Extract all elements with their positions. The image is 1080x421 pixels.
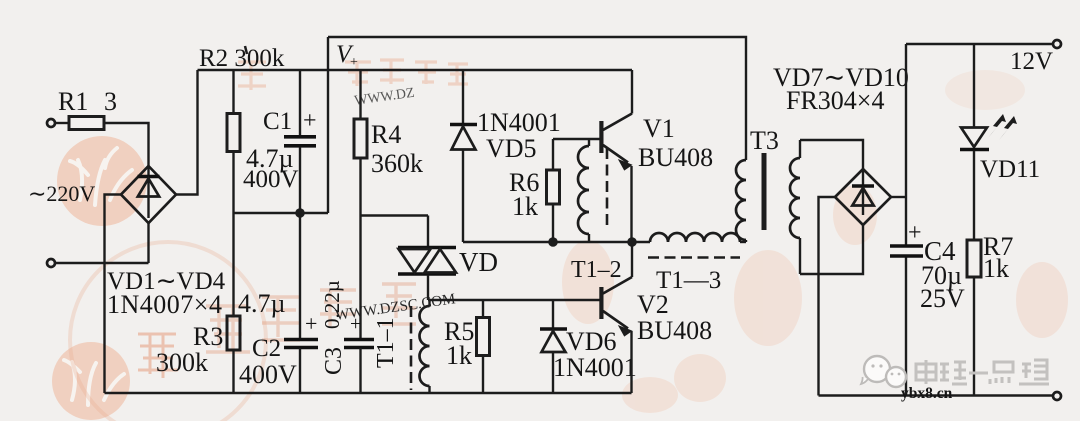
core dashes T1-1 <box>410 306 413 390</box>
wire terminal2 horizontal <box>55 262 149 264</box>
resistor R6 <box>547 139 560 242</box>
bottom rail right circuit <box>819 394 1054 396</box>
svg-text:VD6: VD6 <box>566 327 617 356</box>
wire bridge2 right vertex <box>891 196 906 198</box>
svg-text:300k: 300k <box>156 348 208 377</box>
svg-text:1N4001: 1N4001 <box>553 353 637 382</box>
wire bridge2 left vertex down <box>819 197 836 396</box>
winding T1-3 <box>632 233 746 242</box>
capacitor C4 <box>890 246 923 256</box>
wire secondary bottom to bridge2 <box>800 225 863 274</box>
svg-text:C3: C3 <box>321 347 347 375</box>
svg-text:1k: 1k <box>512 192 538 221</box>
mid node line <box>234 212 329 214</box>
logo text gray chars <box>916 360 1049 384</box>
wire bridge bottom vertex to neutral <box>147 223 149 263</box>
terminal input top <box>47 119 55 127</box>
top line to T3 primary <box>328 37 746 160</box>
diode VD6 <box>540 300 567 393</box>
svg-text:1N4007×4: 1N4007×4 <box>107 290 222 319</box>
crossing wire mid node to top line <box>327 37 329 213</box>
watermark chars center-top <box>238 60 468 90</box>
svg-text:360k: 360k <box>371 149 423 178</box>
transistor V1 <box>599 70 632 242</box>
svg-text:R4: R4 <box>371 120 401 149</box>
transistor V2 <box>599 242 632 393</box>
capacitor C2 <box>284 213 318 393</box>
terminal 12V- <box>1053 392 1061 400</box>
watermark ring lower-left <box>70 242 266 421</box>
resistor R5 <box>477 300 490 393</box>
core dashes T1-3 <box>648 256 740 259</box>
resistor R2 <box>227 70 240 213</box>
LED arrows <box>988 114 1017 140</box>
watermark char lower-left <box>138 334 178 378</box>
winding T1-2 <box>578 139 589 242</box>
terminal input bottom <box>47 259 55 267</box>
svg-text:0.22µ: 0.22µ <box>320 280 344 329</box>
wire terminal1 to R1 <box>55 122 69 124</box>
DC+ vertical right <box>905 44 907 245</box>
wire R1 to bridge top <box>104 123 149 166</box>
junction dot C1 bottom <box>295 208 305 218</box>
svg-text:BU408: BU408 <box>637 316 712 345</box>
resistor R3 <box>227 213 240 393</box>
junction dot R6 bottom <box>548 237 558 247</box>
svg-text:V1: V1 <box>643 114 675 143</box>
junction dot V1 emitter <box>627 237 637 247</box>
bridge rectifier VD7-VD10 <box>835 169 891 225</box>
watermark stamp disc upper-left <box>57 136 147 226</box>
svg-text:3: 3 <box>104 87 117 116</box>
diac VD <box>398 216 456 301</box>
svg-text:+: + <box>303 108 317 134</box>
V1 base wire <box>553 138 600 140</box>
svg-text:25V: 25V <box>920 284 965 313</box>
LED VD11 <box>960 44 989 240</box>
svg-text:+: + <box>350 313 361 335</box>
transformer T3 secondary <box>790 140 800 274</box>
svg-text:R1: R1 <box>58 87 88 116</box>
svg-text:FR304×4: FR304×4 <box>786 86 884 115</box>
wire secondary top to bridge2 <box>800 140 863 169</box>
transformer T3 core <box>762 153 767 230</box>
svg-text:R2 300k: R2 300k <box>199 45 285 72</box>
svg-text:C1: C1 <box>263 108 292 135</box>
svg-text:+: + <box>305 311 317 336</box>
svg-text:BU408: BU408 <box>638 143 713 172</box>
svg-text:R3: R3 <box>193 322 223 351</box>
wire R4 node to diac <box>361 214 429 216</box>
svg-text:12V: 12V <box>1010 48 1053 75</box>
svg-text:VD11: VD11 <box>980 156 1040 183</box>
svg-text:4.7µ: 4.7µ <box>238 289 286 318</box>
winding T1-1 <box>420 300 430 393</box>
V+ rail <box>198 69 633 71</box>
bottom rail left circuit <box>105 392 632 394</box>
svg-text:C2: C2 <box>252 335 281 362</box>
bridge rectifier VD1-VD4 <box>121 166 176 223</box>
svg-text:1N4001: 1N4001 <box>477 108 561 137</box>
transformer T3 primary <box>736 160 746 242</box>
resistor R7 <box>967 240 981 396</box>
svg-text:T1–1: T1–1 <box>373 317 399 368</box>
svg-text:V2: V2 <box>637 290 669 319</box>
diode VD5 <box>450 70 477 242</box>
svg-text:+: + <box>350 55 358 70</box>
svg-text:1k: 1k <box>983 254 1009 283</box>
wire bridge right vertex up to V+ rail <box>176 70 198 195</box>
resistor R1 <box>69 117 104 130</box>
wire bridge left vertex down to bottom rail <box>105 195 122 394</box>
svg-text:+: + <box>908 220 922 246</box>
trigger line to V2 base <box>428 299 600 301</box>
resistor R4 <box>354 70 367 339</box>
core dashes T1-2 <box>606 148 609 230</box>
svg-text:400V: 400V <box>243 166 299 193</box>
svg-text:ybx8.cn: ybx8.cn <box>901 385 953 402</box>
watermark blobs right <box>945 70 1025 110</box>
svg-text:VD: VD <box>459 247 498 277</box>
svg-text:T3: T3 <box>750 126 779 155</box>
capacitor C3 <box>344 340 374 394</box>
watermark chars center-bottom <box>206 284 416 352</box>
svg-text:∼220V: ∼220V <box>28 181 95 206</box>
terminal 12V+ <box>1053 40 1061 48</box>
svg-text:T1–2: T1–2 <box>571 257 622 283</box>
emitter line y243 <box>463 241 632 243</box>
watermark stamp disc lower-left <box>52 342 130 420</box>
svg-text:VD5: VD5 <box>486 134 537 163</box>
logo wechat gray <box>861 356 906 387</box>
capacitor C1 <box>284 70 316 213</box>
svg-text:1k: 1k <box>446 341 472 370</box>
svg-text:T1—3: T1—3 <box>656 267 721 294</box>
svg-text:400V: 400V <box>239 360 297 389</box>
12V top rail <box>906 43 1053 45</box>
